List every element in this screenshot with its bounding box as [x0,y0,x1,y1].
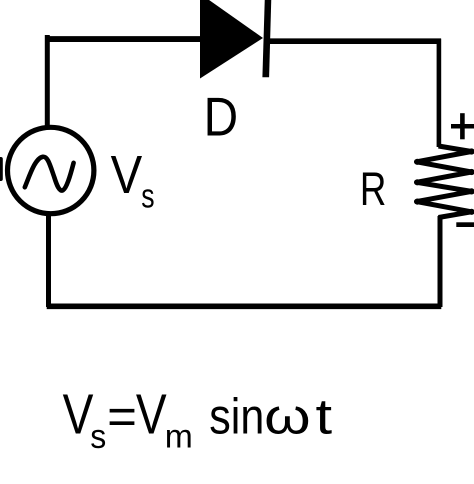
svg-text:D: D [204,86,239,147]
svg-text:V: V [63,384,94,447]
svg-text:sin: sin [209,388,264,445]
svg-text:V: V [136,384,167,447]
svg-text:ω: ω [264,388,311,445]
svg-text:s: s [90,418,106,456]
svg-text:s: s [141,178,154,216]
svg-text:m: m [165,418,193,456]
svg-text:R: R [360,163,387,216]
svg-text:V: V [111,145,143,205]
svg-text:t: t [316,388,333,445]
svg-text:=: = [107,389,137,445]
